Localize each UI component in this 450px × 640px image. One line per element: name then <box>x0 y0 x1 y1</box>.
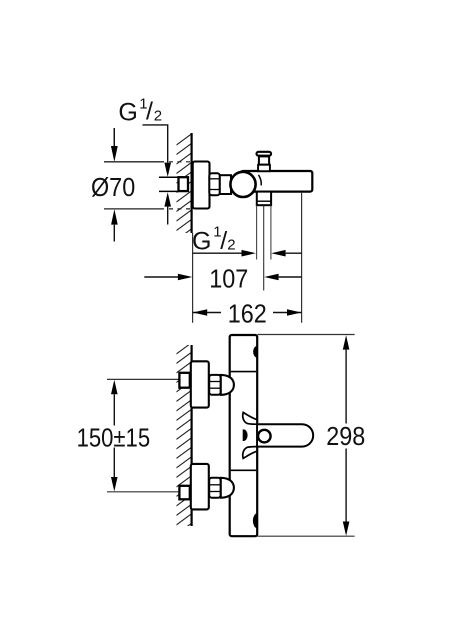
extension line bottom supply <box>107 491 191 493</box>
svg-text:/: / <box>146 98 153 126</box>
spout outlet pipe walls (side view) <box>256 205 258 259</box>
svg-text:Ø70: Ø70 <box>91 174 135 202</box>
right extension line (162) <box>301 192 303 323</box>
svg-text:298: 298 <box>326 423 365 451</box>
svg-text:150±15: 150±15 <box>77 424 151 453</box>
label G1/2 (top left) <box>118 96 162 127</box>
hidden/extension line at escutcheon bottom <box>104 208 164 210</box>
supply pipe behind wall (side view) <box>159 176 179 178</box>
S-union dome bottom <box>221 478 234 498</box>
dimension 162 <box>193 312 221 314</box>
extension line top supply <box>107 378 191 380</box>
diverter knob cap <box>257 152 272 156</box>
G1/2 spout dimension line left <box>193 252 243 254</box>
diverter knob silhouette (front view, top) <box>253 346 257 358</box>
wall hatch (side view) <box>176 133 193 250</box>
union nut bottom (front view) <box>209 478 220 498</box>
faucet body (side view) <box>241 171 312 192</box>
body section line lower <box>231 469 256 471</box>
dimension 107 <box>144 276 181 278</box>
G1/2 spout dimension line right <box>271 250 285 257</box>
body right edge through spout <box>256 410 258 461</box>
wall face extension line <box>192 233 194 323</box>
G1/2 top dimension: left arrow <box>113 128 115 147</box>
square nipple bottom (front view) <box>179 486 189 500</box>
svg-text:G: G <box>118 98 137 126</box>
G1/2 leader elbow <box>143 125 168 163</box>
body section line upper <box>231 371 256 373</box>
spout collar (side view) <box>257 192 271 206</box>
G1/2 arrow to pipe top <box>164 163 171 177</box>
square nipple top (front view) <box>179 373 189 388</box>
hidden/extension line at escutcheon top <box>104 161 164 163</box>
cartridge arc detail <box>259 175 262 186</box>
square pipe nipple (side view) <box>179 177 189 191</box>
union tailpiece (side view) <box>220 175 231 194</box>
svg-text:2: 2 <box>154 107 162 124</box>
union nut (side view) <box>209 173 220 195</box>
faucet body (front view) <box>230 335 258 536</box>
diverter knob base <box>258 165 270 172</box>
escutcheon top (front view) <box>191 361 209 407</box>
escutcheon bottom (front view) <box>191 464 209 510</box>
thermostat knob circle (side view) <box>230 172 255 197</box>
wall face line (side view) <box>191 133 193 233</box>
svg-text:162: 162 <box>228 300 267 328</box>
spout bottom leaf <box>243 447 257 459</box>
298 extension line bottom <box>258 535 355 537</box>
spout centerline <box>263 206 265 291</box>
diverter knob stem (side view) <box>259 156 269 164</box>
temp knob silhouette (front view, bottom) <box>253 513 258 528</box>
wall face line (front view) <box>191 345 193 526</box>
svg-text:2: 2 <box>227 237 235 254</box>
dimension 150±15 <box>111 380 118 394</box>
label G1/2 (lower, spout thread) <box>192 224 236 256</box>
wall hatch (front view) <box>176 342 193 545</box>
temperature ring circle <box>258 430 271 443</box>
Ø70 arrow up <box>111 209 118 224</box>
spout horseshoe outline <box>257 424 313 446</box>
S-union dome top <box>221 375 234 395</box>
298 extension line top <box>258 334 355 336</box>
G1/2 arrow to pipe bottom <box>164 192 171 206</box>
safety button (black D) <box>243 429 248 441</box>
dimension 298 <box>343 335 350 349</box>
svg-text:107: 107 <box>209 266 248 294</box>
union nut top (front view) <box>209 375 220 395</box>
Ø70 arrow down <box>113 128 115 147</box>
spout top leaf <box>243 412 257 424</box>
svg-text:G: G <box>192 228 211 256</box>
escutcheon (side view) <box>193 162 210 209</box>
